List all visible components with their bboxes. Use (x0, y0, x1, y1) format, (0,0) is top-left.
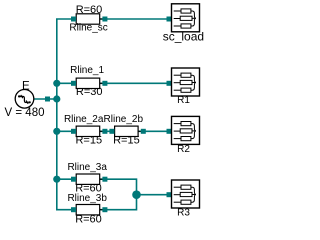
svg-text:Rline_sc: Rline_sc (69, 22, 107, 33)
svg-text:R3: R3 (177, 207, 190, 218)
svg-text:R=60: R=60 (76, 4, 103, 16)
svg-text:R2: R2 (177, 144, 190, 155)
svg-text:Rline_2a: Rline_2a (64, 114, 104, 125)
svg-text:Rline_2b: Rline_2b (104, 114, 144, 125)
svg-text:Rline_3a: Rline_3a (67, 162, 107, 173)
svg-text:V = 480: V = 480 (5, 107, 45, 119)
svg-text:Rline_1: Rline_1 (70, 65, 104, 76)
svg-text:Rline_3b: Rline_3b (67, 193, 107, 204)
